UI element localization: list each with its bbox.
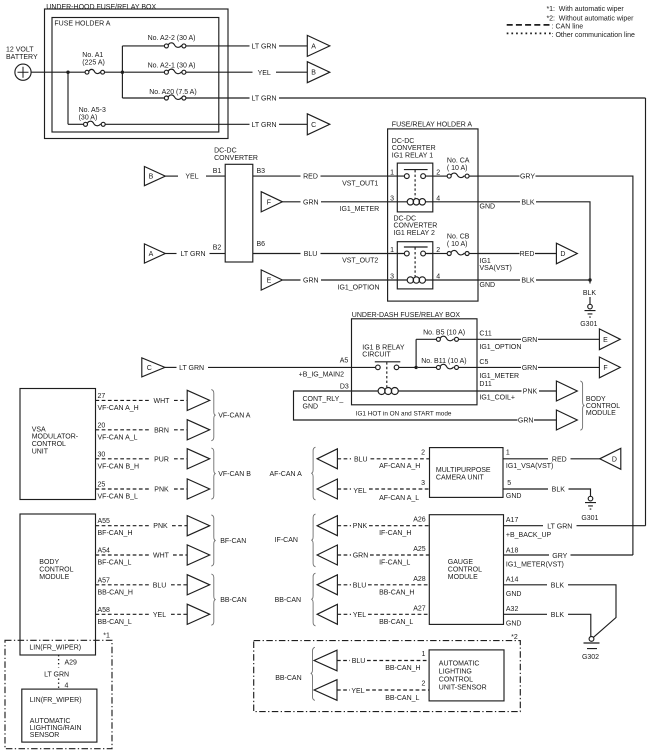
brace AF-CAN A <box>311 447 315 500</box>
svg-text:PUR: PUR <box>154 456 169 463</box>
svg-text:CONTROL: CONTROL <box>586 403 620 410</box>
svg-text:IG1 B RELAY: IG1 B RELAY <box>362 344 405 351</box>
svg-text:2: 2 <box>421 449 425 456</box>
svg-text:BATTERY: BATTERY <box>6 54 38 61</box>
IG1B relay coil <box>352 388 478 395</box>
wire A20 LT GRN long to right edge <box>251 96 645 103</box>
svg-text:CONVERTER: CONVERTER <box>394 223 438 230</box>
svg-text:PNK: PNK <box>154 487 169 494</box>
relay1 contact <box>397 170 433 179</box>
svg-text:PNK: PNK <box>353 523 368 530</box>
IG1 B relay circuit label <box>362 344 405 358</box>
svg-text:A14: A14 <box>506 576 519 583</box>
wire BLK A32 to ground G302 <box>504 612 591 637</box>
connector F (from sheet, IG1_METER) <box>261 192 282 212</box>
wire GRN C5 to connector F <box>477 365 599 372</box>
svg-text:2: 2 <box>421 681 425 688</box>
wire PNK VF-CAN B_L <box>96 488 188 490</box>
connector A (from sheet, into DC-DC B2) <box>144 244 165 263</box>
wire BLU VST_OUT2 B6 to relay2 pin1 <box>253 251 397 265</box>
svg-text:B: B <box>311 70 316 77</box>
wire YEL BB-CAN_L to sensor pin 2 <box>337 689 429 691</box>
brace VF-CAN A <box>211 390 215 441</box>
fuse No.A2-2 (30 A) <box>122 35 249 48</box>
label PNK / IF-CAN_H / pin A26 <box>353 517 426 538</box>
wire BLU BB-CAN_H to gauge A28 <box>337 584 429 586</box>
svg-text:IG1_METER(VST): IG1_METER(VST) <box>506 561 564 568</box>
pin A58 BB-CAN_L <box>98 607 132 626</box>
wire junction down to A5-3 row <box>67 72 69 124</box>
label BLU / BB-CAN_H / pin 1 <box>352 651 426 672</box>
svg-text:MODULE: MODULE <box>586 410 616 417</box>
svg-text:B1: B1 <box>213 168 222 175</box>
svg-text:CONTROL: CONTROL <box>439 676 473 683</box>
svg-text:No. A2-1 (30 A): No. A2-1 (30 A) <box>148 63 196 70</box>
pin 27 VF-CAN A_H <box>98 393 139 412</box>
svg-text:BB-CAN_H: BB-CAN_H <box>98 589 133 596</box>
connector arrow VF-CAN B_L out <box>187 479 210 499</box>
svg-text:BB-CAN: BB-CAN <box>220 597 246 604</box>
svg-text:A17: A17 <box>506 517 519 524</box>
svg-text:GND: GND <box>303 403 319 410</box>
svg-text:With automatic wiper: With automatic wiper <box>559 6 625 13</box>
label YEL / BB-CAN_L / pin 2 <box>351 681 425 702</box>
svg-text:A25: A25 <box>413 546 426 553</box>
svg-text:CIRCUIT: CIRCUIT <box>362 351 391 358</box>
svg-text:YEL: YEL <box>258 70 271 77</box>
pin A5 +B_IG_MAIN2 <box>299 357 349 378</box>
connector C (from sheet, +B_IG_MAIN2) <box>142 358 165 377</box>
svg-text:MODULE: MODULE <box>39 574 69 581</box>
svg-text:BLU: BLU <box>153 582 167 589</box>
relay2 contact <box>397 247 433 256</box>
svg-text:4: 4 <box>65 682 69 689</box>
svg-text:BB-CAN_H: BB-CAN_H <box>379 589 414 596</box>
svg-text:+B_BACK_UP: +B_BACK_UP <box>506 532 552 539</box>
svg-text:VSA: VSA <box>32 426 46 433</box>
under-dash fuse/relay box <box>352 312 478 405</box>
svg-text:VST_OUT1: VST_OUT1 <box>342 181 378 188</box>
svg-text:CONTROL: CONTROL <box>32 441 66 448</box>
wire PUR VF-CAN B_H <box>96 458 188 460</box>
brace BB-CAN <box>211 574 215 625</box>
svg-text:A5: A5 <box>340 357 349 364</box>
svg-text:DC-DC: DC-DC <box>214 148 237 155</box>
ground G302 <box>582 637 600 662</box>
svg-text:No. CA: No. CA <box>447 158 470 165</box>
svg-text:FUSE HOLDER A: FUSE HOLDER A <box>54 20 110 27</box>
svg-text:BRN: BRN <box>154 427 169 434</box>
svg-text:D: D <box>560 251 565 258</box>
svg-text:A26: A26 <box>413 517 426 524</box>
pin A17 +B_BACK_UP <box>506 517 552 539</box>
svg-text:D: D <box>612 456 617 463</box>
svg-text:LT GRN: LT GRN <box>547 524 572 531</box>
svg-text:VF-CAN B_L: VF-CAN B_L <box>98 494 139 501</box>
svg-text:IG1 HOT in ON and START mode: IG1 HOT in ON and START mode <box>356 410 452 417</box>
pin 25 VF-CAN B_L <box>98 482 139 501</box>
svg-text:AUTOMATIC: AUTOMATIC <box>439 660 480 667</box>
svg-text:3: 3 <box>390 195 394 202</box>
wire junction vertical A2-2 to A20 <box>121 46 123 98</box>
fuse No.A20 (7.5 A) <box>122 89 249 100</box>
wire battery to junction <box>31 71 68 73</box>
brace body control module <box>580 381 584 430</box>
connector B (from sheet, into DC-DC B1) <box>144 167 165 186</box>
svg-text:20: 20 <box>98 422 106 429</box>
brace BB-CAN (sensor side) <box>311 647 315 700</box>
svg-text:No. A1: No. A1 <box>82 52 103 59</box>
svg-text:GRN: GRN <box>353 553 369 560</box>
pin 30 VF-CAN B_H <box>98 451 140 470</box>
svg-text:CAMERA UNIT: CAMERA UNIT <box>436 475 485 482</box>
svg-text:BODY: BODY <box>39 559 59 566</box>
svg-text:GRY: GRY <box>520 174 535 181</box>
svg-text:: CAN line: : CAN line <box>552 24 584 31</box>
gauge control module <box>429 515 503 625</box>
svg-text:C: C <box>147 365 152 372</box>
svg-text:No. B5 (10 A): No. B5 (10 A) <box>423 329 465 336</box>
svg-text:C11: C11 <box>479 330 491 337</box>
svg-text:( 10 A): ( 10 A) <box>447 165 468 172</box>
label YEL / AF-CAN A_L / pin 3 <box>353 480 425 502</box>
connector arrow VF-CAN A_H out <box>187 390 210 410</box>
svg-text:IG1_OPTION: IG1_OPTION <box>479 344 521 351</box>
svg-text:CONTROL: CONTROL <box>448 566 482 573</box>
wire GRN IG1_OPTION E to relay2 pin3 <box>282 278 397 292</box>
svg-text:1: 1 <box>506 449 510 456</box>
svg-text:GND: GND <box>480 282 496 289</box>
svg-text:GRY: GRY <box>552 553 567 560</box>
svg-text:A: A <box>311 43 316 50</box>
svg-text:B2: B2 <box>213 245 222 252</box>
svg-text:WHT: WHT <box>154 398 171 405</box>
battery 12V <box>6 47 38 81</box>
svg-text:1: 1 <box>421 651 425 658</box>
svg-text:A57: A57 <box>98 577 111 584</box>
svg-text:LIN(FR_WIPER): LIN(FR_WIPER) <box>30 697 82 704</box>
legend note *2 <box>546 15 634 22</box>
svg-text:VF-CAN B: VF-CAN B <box>218 471 251 478</box>
wire junction up to fuse B5 <box>415 339 417 367</box>
svg-text:IG1_OPTION: IG1_OPTION <box>338 285 380 292</box>
svg-text:DC-DC: DC-DC <box>392 138 415 145</box>
fuse/relay holder A box <box>388 122 478 301</box>
svg-text:CONTROL: CONTROL <box>39 567 73 574</box>
svg-text:LIGHTING/RAIN: LIGHTING/RAIN <box>30 725 82 732</box>
svg-text:GRN: GRN <box>518 418 534 425</box>
svg-text:DC-DC: DC-DC <box>394 216 417 223</box>
svg-text:B: B <box>149 174 154 181</box>
wire YEL B to pin B1 <box>165 174 225 181</box>
svg-text:: Other communication line: : Other communication line <box>552 32 635 39</box>
svg-text:C5: C5 <box>479 359 488 366</box>
pin A14 GND <box>506 576 522 598</box>
pin A18 IG1_METER(VST) <box>506 547 564 568</box>
pin C11 IG1_OPTION <box>479 330 521 351</box>
svg-text:BF-CAN_H: BF-CAN_H <box>98 530 133 537</box>
node BLK junction <box>588 278 591 281</box>
svg-text:BB-CAN_L: BB-CAN_L <box>379 619 413 626</box>
svg-text:VF-CAN A: VF-CAN A <box>218 413 251 420</box>
brace IF-CAN (gauge side) <box>311 514 315 567</box>
connector F (to sheet F) <box>599 357 620 378</box>
node battery junction <box>66 71 69 74</box>
ground G301 (camera) <box>581 496 598 521</box>
svg-text:UNIT: UNIT <box>32 448 49 455</box>
svg-text:3: 3 <box>390 274 394 281</box>
svg-text:A55: A55 <box>98 518 111 525</box>
svg-text:A28: A28 <box>413 576 426 583</box>
svg-text:GRN: GRN <box>303 199 319 206</box>
svg-text:MODULE: MODULE <box>448 574 478 581</box>
wire A2-1 YEL to connector B <box>258 70 308 77</box>
svg-text:CONT_RLY_: CONT_RLY_ <box>303 396 344 403</box>
fuse No.B11 (10 A) <box>418 358 477 370</box>
label BLU / BB-CAN_H / pin A28 <box>353 576 426 597</box>
svg-text:IG1 RELAY 2: IG1 RELAY 2 <box>394 230 435 237</box>
svg-text:BLK: BLK <box>521 199 535 206</box>
wire +B back up vertical right edge down to A17 <box>645 98 647 526</box>
wire GRY fuse CA to right edge down to A18 <box>478 174 633 555</box>
svg-text:YEL: YEL <box>353 612 366 619</box>
connector arrow BB-CAN_L in (gauge) <box>317 604 337 624</box>
pin 20 VF-CAN A_L <box>98 422 138 441</box>
svg-text:IG1_METER: IG1_METER <box>340 206 380 213</box>
svg-text:LT GRN: LT GRN <box>251 96 276 103</box>
svg-text:LT GRN: LT GRN <box>251 44 276 51</box>
connector D (to sheet D) <box>556 243 577 264</box>
dashed option box (with automatic wiper) <box>5 640 112 748</box>
svg-text:GAUGE: GAUGE <box>448 559 474 566</box>
connector arrow BB-CAN_H in (gauge) <box>317 575 337 595</box>
wire GRN IF-CAN_L to gauge A25 <box>337 554 429 556</box>
svg-text:YEL: YEL <box>351 688 364 695</box>
wire LT GRN C to pin A5 <box>165 365 352 372</box>
svg-text:AUTOMATIC: AUTOMATIC <box>30 718 71 725</box>
svg-text:BLK: BLK <box>552 487 566 494</box>
svg-text:BB-CAN: BB-CAN <box>275 597 301 604</box>
svg-text:GND: GND <box>480 204 496 211</box>
svg-text:(30 A): (30 A) <box>79 115 98 122</box>
svg-text:VSA(VST): VSA(VST) <box>480 265 512 272</box>
svg-text:IG1_COIL+: IG1_COIL+ <box>479 394 515 401</box>
fuse No.A1 (225 A) <box>68 52 122 74</box>
under-hood fuse/relay box <box>45 4 229 139</box>
svg-text:1: 1 <box>390 247 394 254</box>
svg-text:RED: RED <box>552 456 567 463</box>
automatic lighting control unit-sensor <box>429 650 504 701</box>
connector arrow BB-CAN_H out <box>187 575 210 595</box>
wire PNK D11 to body control module <box>477 389 556 396</box>
svg-text:MODULATOR-: MODULATOR- <box>32 434 79 441</box>
brace VF-CAN B <box>211 448 215 499</box>
wire WHT VF-CAN A_H <box>96 399 188 401</box>
svg-text:AF-CAN A_L: AF-CAN A_L <box>379 495 419 502</box>
svg-text:BF-CAN_L: BF-CAN_L <box>98 560 132 567</box>
svg-text:B6: B6 <box>257 241 266 248</box>
fuse No.CA (10 A) <box>433 158 478 179</box>
svg-text:*1: *1 <box>103 633 110 640</box>
svg-text:LT GRN: LT GRN <box>251 122 276 129</box>
svg-text:BB-CAN_L: BB-CAN_L <box>385 695 419 702</box>
svg-text:3: 3 <box>421 480 425 487</box>
camera pin 1 IG1_VSA(VST) <box>506 449 553 470</box>
svg-text:BLU: BLU <box>354 456 368 463</box>
svg-text:A18: A18 <box>506 547 519 554</box>
label body control module <box>586 396 620 417</box>
svg-text:IG1_VSA(VST): IG1_VSA(VST) <box>506 463 553 470</box>
svg-text:A58: A58 <box>98 607 111 614</box>
svg-text:12 VOLT: 12 VOLT <box>6 47 34 54</box>
svg-text:AF-CAN A: AF-CAN A <box>270 471 303 478</box>
node A1 output junction <box>121 71 124 74</box>
wire GRN IG1_METER F to relay1 pin3 <box>282 199 397 213</box>
wire BLU AF-CAN_H to camera pin 2 <box>337 458 429 460</box>
svg-text:GRN: GRN <box>522 337 538 344</box>
connector arrow BB-CAN_H in (sensor) <box>314 650 337 671</box>
fuse No.A2-1 (30 A) <box>124 63 252 75</box>
pin D3 CONT_RLY_GND <box>303 384 349 411</box>
svg-text:LT GRN: LT GRN <box>44 671 69 678</box>
svg-text:BLU: BLU <box>304 251 318 258</box>
svg-text:BLU: BLU <box>352 658 366 665</box>
label BLU / AF-CAN A_H / pin 2 <box>354 449 425 470</box>
connector E (to sheet E) <box>599 329 620 350</box>
svg-text:C: C <box>311 122 316 129</box>
svg-text:RED: RED <box>303 174 318 181</box>
svg-text:GND: GND <box>506 621 522 628</box>
svg-text:GND: GND <box>506 493 522 500</box>
connector arrow GRN to BCM <box>556 410 577 430</box>
svg-text:BB-CAN_H: BB-CAN_H <box>385 665 420 672</box>
svg-text:BB-CAN: BB-CAN <box>275 675 301 682</box>
wire CONT_RLY_GND D3 loop to GRN connector <box>294 391 557 425</box>
ground G301 (relays) <box>580 290 597 328</box>
wire BLU BB-CAN_H to sensor pin 1 <box>337 660 429 662</box>
svg-text:RED: RED <box>520 251 535 258</box>
fuse No.B5 (10 A) <box>416 329 477 341</box>
svg-text:LIN(FR_WIPER): LIN(FR_WIPER) <box>29 645 81 652</box>
connector arrow BF-CAN_L out <box>187 545 210 565</box>
svg-text:1: 1 <box>390 170 394 177</box>
body control module <box>20 514 96 655</box>
fuse holder A box <box>52 18 219 133</box>
svg-text:FUSE/RELAY HOLDER A: FUSE/RELAY HOLDER A <box>392 122 473 129</box>
connector B (to sheet B) <box>307 62 330 83</box>
svg-text:25: 25 <box>98 482 106 489</box>
svg-text:LT GRN: LT GRN <box>179 365 204 372</box>
svg-text:D3: D3 <box>340 384 349 391</box>
connector arrow IF-CAN_H in <box>317 516 337 536</box>
svg-text:(225 A): (225 A) <box>82 60 105 67</box>
svg-text:No. A2-2 (30 A): No. A2-2 (30 A) <box>148 35 196 42</box>
wire LT GRN A to pin B2 <box>165 251 225 258</box>
connector arrow BB-CAN_L in (sensor) <box>314 680 337 701</box>
svg-text:D11: D11 <box>479 381 491 388</box>
wire A2-2 LT GRN to connector A <box>251 44 307 51</box>
svg-text:GRN: GRN <box>522 365 538 372</box>
svg-text:VF-CAN A_H: VF-CAN A_H <box>98 405 139 412</box>
svg-text:BB-CAN_L: BB-CAN_L <box>98 619 132 626</box>
relay U1 DC-DC converter IG1 relay 1 <box>392 138 436 212</box>
wire RED camera pin1 to connector D <box>503 456 600 463</box>
relay2 mechanical link <box>414 247 416 276</box>
svg-text:B3: B3 <box>257 168 266 175</box>
wire GRY A18 from right edge <box>504 553 633 560</box>
connector A (to sheet A) <box>307 35 330 56</box>
svg-text:BLK: BLK <box>551 612 565 619</box>
svg-text:+B_IG_MAIN2: +B_IG_MAIN2 <box>299 371 344 378</box>
svg-text:LIGHTING: LIGHTING <box>439 668 472 675</box>
connector arrow AF-CAN_L in <box>317 479 337 499</box>
pin D11 IG1_COIL+ <box>479 381 515 401</box>
label YEL / BB-CAN_L / pin A27 <box>353 606 426 626</box>
svg-text:YEL: YEL <box>153 612 166 619</box>
svg-text:BODY: BODY <box>586 396 606 403</box>
svg-text:UNIT-SENSOR: UNIT-SENSOR <box>439 684 487 691</box>
svg-text:G302: G302 <box>582 654 599 661</box>
connector arrow BB-CAN_L out <box>187 604 210 624</box>
fuse No.A5-3 (30 A) <box>68 107 250 126</box>
connector arrow VF-CAN B_H out <box>187 449 210 469</box>
fuse No.CB (10 A) <box>433 234 478 256</box>
connector arrow IF-CAN_L in <box>317 545 337 565</box>
svg-text:WHT: WHT <box>153 553 170 560</box>
wire BLK relay2 pin4 GND to junction <box>433 278 590 290</box>
svg-text:F: F <box>267 199 271 206</box>
svg-text:VF-CAN A_L: VF-CAN A_L <box>98 434 138 441</box>
pin A32 GND <box>506 606 522 628</box>
wire GRN C11 to connector E <box>477 337 599 344</box>
svg-text:IG1 RELAY 1: IG1 RELAY 1 <box>392 152 433 159</box>
svg-text:IF-CAN: IF-CAN <box>275 537 298 544</box>
camera pin 5 GND <box>506 480 522 500</box>
legend note *1 <box>546 6 624 13</box>
node relay output junction <box>414 366 417 369</box>
wire YEL AF-CAN_L to camera pin 3 <box>337 488 429 490</box>
wire BLK A14 to ground G302 <box>504 582 617 637</box>
wire PNK IF-CAN_H to gauge A26 <box>337 525 429 527</box>
svg-text:A: A <box>149 251 154 258</box>
wire BLK relay1 pin4 GND <box>433 199 590 283</box>
svg-text:GRN: GRN <box>303 278 319 285</box>
wire WHT BF-CAN_L <box>96 554 188 556</box>
svg-text:G301: G301 <box>580 321 597 328</box>
brace BB-CAN (gauge side) <box>311 573 315 626</box>
svg-text:SENSOR: SENSOR <box>30 732 60 739</box>
wire YEL BB-CAN_L to gauge A27 <box>337 613 429 615</box>
wire YEL BB-CAN_L <box>96 613 188 615</box>
svg-text:30: 30 <box>98 451 106 458</box>
svg-text:G301: G301 <box>581 515 598 522</box>
connector arrow AF-CAN_H in <box>317 449 337 469</box>
wire BLU BB-CAN_H <box>96 584 188 586</box>
svg-text:IF-CAN_L: IF-CAN_L <box>379 560 410 567</box>
svg-text:IF-CAN_H: IF-CAN_H <box>379 530 411 537</box>
wire RED IG1 VSA(VST) to connector D <box>478 251 556 272</box>
pin A57 BB-CAN_H <box>98 577 133 596</box>
connector C (to sheet C) <box>307 114 330 135</box>
svg-text:No. A5-3: No. A5-3 <box>79 107 106 114</box>
svg-text:BLK: BLK <box>583 290 597 297</box>
svg-text:YEL: YEL <box>185 174 198 181</box>
VSA modulator-control unit <box>20 389 96 500</box>
wire LT GRN A17 from right edge <box>504 524 646 531</box>
svg-text:A54: A54 <box>98 548 111 555</box>
multipurpose camera unit <box>430 448 504 498</box>
svg-text:Without automatic wiper: Without automatic wiper <box>559 15 634 22</box>
